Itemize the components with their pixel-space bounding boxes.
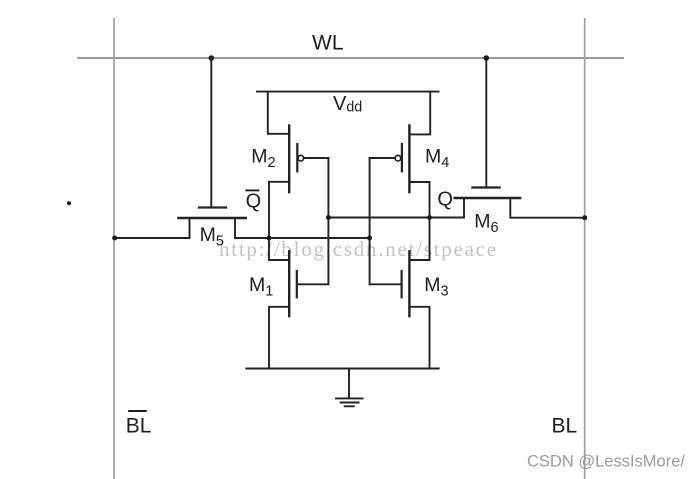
wire BLB bit line (left gray vertical) (113, 18, 115, 479)
wire vertical B (gates of M4,M3) (369, 158, 371, 284)
junction dot QB/vertical B (367, 236, 372, 241)
wire M6 right lead to BL (510, 198, 584, 218)
junction dot WL/M5 (209, 55, 215, 61)
wire M4 gate to vertical B (370, 157, 396, 159)
wire WL to M6 gate (485, 58, 487, 187)
junction dot QB node (267, 236, 272, 241)
transistor M4 channel (408, 125, 410, 192)
junction dot Q node (427, 215, 432, 220)
wire M1 gate to vertical A (297, 283, 329, 285)
transistor M2 gate bar (296, 144, 298, 171)
wire M5 left lead (115, 218, 190, 238)
transistor M1 gate bar (296, 271, 298, 297)
wire Q node vertical (429, 182, 431, 260)
transistor M3 channel (408, 251, 410, 316)
junction dot Q/vertical A (326, 215, 331, 220)
wire WL word line (gray horizontal) (77, 57, 624, 59)
svg-text:BL: BL (126, 415, 152, 438)
wire M4 drain lead (409, 181, 429, 183)
svg-text:Q: Q (437, 189, 453, 211)
ground symbol (348, 369, 350, 398)
transistor M3 gate bar (401, 271, 403, 297)
svg-text:WL: WL (312, 32, 344, 55)
wire M3 drain lead (409, 259, 429, 261)
transistor M5 gate bar (199, 206, 226, 208)
svg-text:BL: BL (552, 415, 578, 438)
wire Q cross-couple line to M6 (328, 217, 464, 219)
svg-text:http://blog.csdn.net/stpeace: http://blog.csdn.net/stpeace (219, 237, 498, 261)
wire Vdd to M2 source (268, 92, 289, 134)
wire M2 gate to vertical A (304, 157, 329, 159)
wire WL to M5 gate (210, 58, 212, 207)
transistor M6 gate bar (472, 186, 499, 188)
wire M6 left lead (463, 198, 465, 218)
wire Vdd rail (257, 91, 439, 93)
transistor M5 channel (178, 217, 245, 219)
wire Vdd to M4 source (409, 92, 430, 135)
wire vertical A (gates of M2,M1) (327, 158, 329, 284)
wire QB node vertical (268, 182, 270, 260)
wire M3 source lead (409, 307, 429, 369)
transistor M1 channel (288, 251, 290, 316)
junction dot BLB/M5 (112, 236, 117, 241)
junction dot WL/M6 (484, 55, 490, 61)
svg-text:CSDN @LessIsMore/: CSDN @LessIsMore/ (527, 452, 685, 470)
stray dot left (67, 201, 71, 205)
wire M1 source lead (269, 307, 289, 369)
wire M5 right lead to QB and cross-couple to vertical B (235, 218, 370, 238)
transistor M6 channel (455, 197, 521, 199)
wire BL bit line (right gray vertical) (584, 18, 586, 479)
junction dot BL/M6 (582, 215, 587, 220)
svg-text:Q: Q (246, 191, 262, 213)
wire ground rail (246, 368, 438, 370)
gate bubble M2 (298, 155, 304, 161)
wire M2 drain lead (269, 181, 289, 183)
transistor M4 gate bar (401, 144, 403, 171)
transistor M2 channel (288, 125, 290, 192)
wire M3 gate to vertical B (370, 283, 402, 285)
wire M1 drain lead (269, 259, 289, 261)
gate bubble M4 (395, 155, 401, 161)
